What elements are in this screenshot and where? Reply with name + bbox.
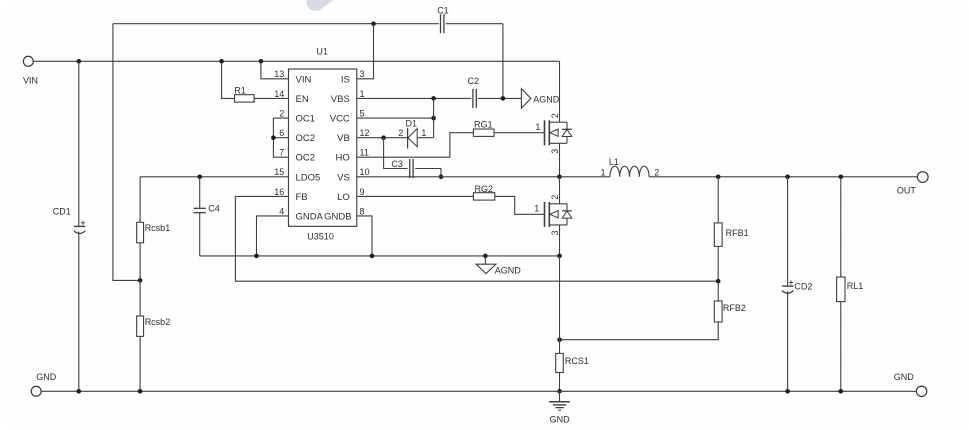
svg-text:C2: C2 [468, 76, 480, 86]
resistor Rcsb2 [137, 316, 144, 336]
terminal VIN [23, 56, 33, 66]
svg-text:C4: C4 [208, 204, 220, 214]
wire RCS1 bottom [559, 373, 561, 392]
capacitor C2 [472, 89, 474, 108]
junction RCS1/GND [557, 389, 562, 394]
svg-text:2: 2 [398, 128, 403, 138]
wire Q1 drain to VIN rail [559, 61, 561, 122]
wire pin13 VIN stub [261, 61, 289, 79]
wire pin4 GNDA drop [257, 216, 289, 256]
wire RCS1 top [559, 256, 561, 354]
svg-text:C1: C1 [437, 5, 449, 15]
svg-text:6: 6 [279, 128, 284, 138]
junction OUT/RFB1 [716, 175, 721, 180]
capacitor CD1 (polarized) [74, 225, 85, 227]
terminal OUT [917, 172, 928, 183]
svg-text:L1: L1 [609, 157, 619, 167]
junction OUT/CD2 [785, 175, 790, 180]
resistor RL1 [837, 277, 845, 302]
wire pin12 VB to D1 [357, 137, 408, 139]
svg-text:VCC: VCC [330, 114, 350, 125]
junction C3/VS [439, 175, 444, 180]
svg-text:13: 13 [274, 69, 284, 79]
capacitor CD2 (polarized) [782, 285, 793, 287]
wire Q2 drain to switch node [559, 177, 561, 204]
junction GND/RL1 [839, 389, 844, 394]
svg-text:RFB2: RFB2 [723, 303, 746, 313]
svg-text:RL1: RL1 [847, 281, 864, 291]
svg-text:GNDB: GNDB [324, 211, 351, 222]
wire RFB2 leads [717, 281, 719, 301]
transistor Q1 (high-side MOSFET) [544, 120, 546, 145]
svg-text:LO: LO [337, 192, 350, 203]
inductor L1 [610, 166, 649, 177]
svg-text:FB: FB [296, 192, 308, 203]
wire VIN rail [33, 60, 559, 62]
capacitor C3 [409, 159, 411, 178]
svg-text:R1: R1 [234, 85, 246, 95]
svg-text:9: 9 [360, 187, 365, 197]
svg-text:CD1: CD1 [53, 207, 71, 217]
junction AGND symbol [483, 254, 488, 259]
svg-text:AGND: AGND [533, 95, 560, 105]
wire C3 branch from VB [384, 138, 408, 169]
junction top rail / IS [371, 21, 376, 26]
junction switch node [557, 175, 562, 180]
terminal GND (bottom right) [916, 386, 926, 396]
svg-text:15: 15 [274, 167, 284, 177]
ground GND (earth symbol) [559, 391, 561, 402]
svg-text:VS: VS [337, 172, 350, 183]
svg-text:AGND: AGND [495, 266, 522, 276]
transistor Q2 (low-side MOSFET) [544, 202, 546, 227]
wire top rail (C1 net) [113, 23, 439, 25]
svg-text:OC2: OC2 [296, 133, 316, 144]
resistor RCS1 [556, 353, 564, 372]
wire Rcsb1 top [139, 177, 141, 223]
svg-text:OC2: OC2 [296, 153, 316, 164]
junction Rcsb divider [138, 278, 143, 283]
wire pin10 VS line [357, 176, 560, 178]
svg-text:10: 10 [360, 167, 370, 177]
junction RFB2 return / RCS1 [557, 337, 562, 342]
svg-text:1: 1 [421, 128, 426, 138]
svg-text:IS: IS [341, 74, 350, 85]
svg-text:U1: U1 [316, 47, 328, 57]
resistor RFB2 [714, 301, 722, 322]
resistor Rcsb1 [137, 222, 144, 243]
resistor RFB1 [714, 223, 722, 247]
junction VIN/CD1 [77, 59, 82, 64]
wire pin8 GNDB drop [357, 216, 372, 256]
wire pin9 LO to RG2 [357, 195, 474, 197]
svg-text:12: 12 [360, 128, 370, 138]
svg-text:3: 3 [550, 230, 560, 235]
junction VBS/VCC [431, 96, 436, 101]
wire Q1 source to switch node [559, 143, 561, 177]
wire pin1 VBS to C2 [357, 97, 471, 99]
svg-text:3: 3 [360, 69, 365, 79]
svg-text:1: 1 [534, 203, 539, 213]
junction GND/Rcsb2 [138, 389, 143, 394]
wire L1 to OUT [649, 176, 917, 178]
svg-text:RG1: RG1 [474, 120, 493, 130]
svg-text:HO: HO [336, 153, 350, 164]
resistor RG1 [473, 129, 494, 136]
wire GND rail [41, 390, 916, 392]
svg-text:GND: GND [894, 372, 915, 382]
wire RG1 to Q1 gate [494, 132, 545, 134]
wire VBS-VCC-D1 vertical [433, 98, 435, 137]
svg-text:CD2: CD2 [794, 281, 812, 291]
svg-text:GNDA: GNDA [296, 211, 324, 222]
wire C3 to VS [415, 169, 441, 177]
wire RFB1 top [717, 177, 719, 223]
junction GND/CD1 [77, 389, 82, 394]
op-amp U1 (U3510 controller box) [289, 69, 357, 226]
wire OC1/OC2 tie [273, 118, 288, 157]
svg-text:EN: EN [296, 94, 309, 105]
wire pin16 FB net [235, 196, 718, 281]
wire Rcsb1 bottom [139, 243, 141, 281]
wire C1 left drop (to Rcsb junction) [113, 24, 140, 281]
terminal GND (bottom left) [31, 386, 41, 396]
wire Rcsb2 leads [139, 280, 141, 316]
wire RL1 bottom [840, 302, 842, 392]
wire C2 to AGND arrow [478, 97, 521, 99]
junction C2/AGND/C1 [501, 96, 506, 101]
junction VIN/R1 [219, 59, 224, 64]
svg-text:GND: GND [36, 372, 57, 382]
svg-text:4: 4 [279, 206, 284, 216]
svg-text:Rcsb1: Rcsb1 [145, 223, 171, 233]
svg-text:Rcsb2: Rcsb2 [145, 317, 171, 327]
svg-text:RFB1: RFB1 [726, 228, 749, 238]
svg-text:D1: D1 [406, 118, 418, 128]
junction OUT/RL1 [839, 175, 844, 180]
wire RFB1 bottom to FB node [717, 246, 719, 281]
svg-text:2: 2 [550, 195, 560, 200]
junction VB/C3 [381, 135, 386, 140]
svg-text:LDO5: LDO5 [296, 172, 321, 183]
svg-text:OUT: OUT [897, 186, 917, 196]
junction VIN/pin13 [259, 59, 264, 64]
capacitor C4 [199, 177, 201, 209]
svg-text:1: 1 [535, 122, 540, 132]
wire RG2 to Q2 gate [495, 196, 545, 214]
junction VCC/D1 [431, 116, 436, 121]
junction GNDA drop [254, 254, 259, 259]
wire R1 to pin14 EN [254, 97, 288, 99]
junction GNDB drop [370, 254, 375, 259]
wire switch node to L1 [560, 176, 610, 178]
wire D1 to VCC node [417, 137, 433, 139]
junction Q2 source / AGND line [557, 254, 562, 259]
svg-text:VB: VB [337, 133, 350, 144]
svg-text:14: 14 [274, 89, 284, 99]
svg-text:11: 11 [360, 148, 369, 158]
junction LDO5/C4 [197, 175, 202, 180]
svg-text:2: 2 [279, 109, 284, 119]
power AGND (triangle) [484, 256, 486, 264]
wire R1 branch from VIN rail [222, 61, 235, 98]
power AGND (arrow, VBS net) [521, 89, 531, 109]
svg-text:OC1: OC1 [296, 114, 316, 125]
svg-text:2: 2 [654, 167, 659, 177]
wire RL1 top [840, 177, 842, 277]
svg-text:1: 1 [601, 167, 606, 177]
svg-text:2: 2 [550, 113, 560, 118]
wire CD1 branch [78, 61, 80, 226]
svg-text:RCS1: RCS1 [565, 356, 589, 366]
svg-text:VIN: VIN [296, 74, 312, 85]
wire Q2 source down [559, 225, 561, 256]
wire CD2 branch [787, 177, 789, 286]
wire pin11 HO to RG1 [357, 133, 474, 158]
wire AGND line (C4/GNDA/GNDB) [200, 255, 560, 257]
svg-text:C3: C3 [391, 159, 403, 169]
svg-text:3: 3 [550, 149, 560, 154]
wire pin15 LDO5 to Rcsb1 [140, 176, 288, 178]
svg-text:1: 1 [360, 89, 365, 99]
svg-text:GND: GND [550, 415, 571, 425]
svg-text:U3510: U3510 [307, 231, 334, 241]
wire pin3 IS stub [357, 24, 374, 79]
svg-text:VBS: VBS [331, 94, 350, 105]
svg-text:VIN: VIN [23, 76, 38, 86]
svg-text:7: 7 [279, 148, 284, 158]
wire C1 right drop (to AGND node) [502, 24, 504, 99]
wire pin5 VCC stub [357, 117, 434, 119]
svg-text:8: 8 [360, 206, 365, 216]
svg-text:RG2: RG2 [475, 184, 494, 194]
resistor RG2 [473, 193, 494, 200]
junction OC2 pin6 [271, 135, 276, 140]
resistor R1 [235, 95, 255, 102]
capacitor C1 [440, 14, 442, 33]
svg-text:16: 16 [274, 187, 284, 197]
diode D1 [407, 128, 409, 148]
junction FB divider [716, 279, 721, 284]
svg-text:5: 5 [360, 109, 365, 119]
junction GND/CD2 [785, 389, 790, 394]
